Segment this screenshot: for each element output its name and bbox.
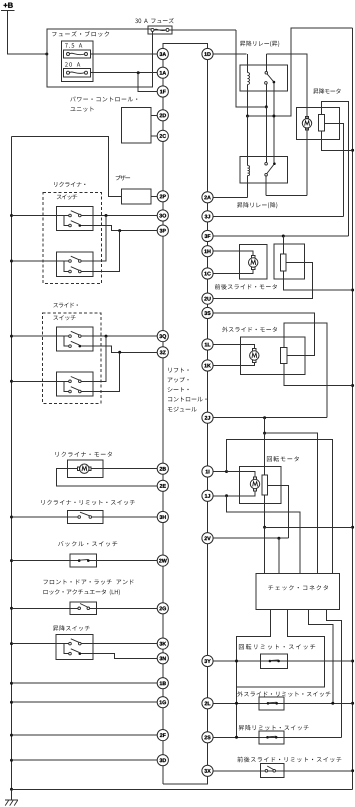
recliner switch S1 box: [57, 207, 94, 231]
wire M1 to 2B: [103, 468, 157, 470]
switch S4 contact b: [69, 387, 81, 393]
junction 2V: [277, 537, 280, 540]
wire check pin1 to 3Y net: [237, 610, 271, 661]
connector pin 2U: [202, 293, 213, 304]
wire S2 pole link: [64, 261, 69, 272]
connector pin 2J: [202, 412, 213, 423]
junction R4 bottom node: [263, 526, 266, 529]
wire 3J row: [213, 215, 344, 217]
junction +B feed at fuse block edge: [45, 53, 48, 56]
wire S4 pole link: [64, 381, 69, 391]
wire R2 bottom to right bus: [283, 271, 352, 290]
wire coil K2 bottom: [247, 176, 249, 198]
label power control unit line2: [70, 107, 93, 112]
wire ground bus top feed to buzzer: [12, 137, 122, 197]
wire M2 to K2 common: [266, 195, 307, 197]
switch buckle contacts closed: [78, 559, 90, 562]
connector pin 2F: [157, 730, 168, 741]
wire S1b to 3P: [81, 226, 157, 231]
motor M3 front-rear slide: [249, 256, 258, 270]
connector pin 2B: [157, 463, 168, 474]
wire S3a to 3Q: [81, 335, 157, 337]
fuse F1 symbol: [67, 53, 88, 56]
wire R1 bottom to right bus: [321, 131, 352, 150]
coil K2: [248, 166, 250, 176]
wire coil K2 top: [247, 116, 249, 166]
wire S3b to 3Z: [81, 346, 157, 352]
label module line 5: [168, 407, 197, 412]
label outer slide limit switch: [237, 691, 330, 697]
switch S2 contact b: [69, 267, 81, 273]
connector pin 3A: [157, 48, 168, 59]
wire R4 tap down: [268, 486, 289, 539]
wire bus to 2F: [12, 734, 158, 736]
wire bus to S5 pole: [12, 643, 69, 645]
connector pin 3D: [157, 755, 168, 766]
wire bus to 1B: [12, 682, 158, 684]
wire check pin3 to 2L row: [308, 610, 333, 704]
wire 3O net to S2a: [81, 216, 106, 262]
wire 30A fuse to relay contacts: [236, 30, 266, 107]
wire K1 NO to K2 contact b: [273, 83, 275, 162]
wire bus to S4 pole: [12, 380, 69, 382]
label recliner switch line1: [54, 182, 85, 187]
wire 1D to relay coil: [213, 53, 247, 55]
junction 1A/1F branch: [137, 71, 140, 74]
connector pin 1C: [202, 268, 213, 279]
connector pin 3S: [202, 307, 213, 318]
wire +B feed to fuse block: [8, 11, 47, 55]
switch fr slide limit open: [265, 766, 275, 772]
connector pin 2W: [157, 555, 168, 566]
wire S3 pole link: [64, 336, 69, 346]
wire R4 bottom to right bus: [265, 526, 353, 528]
wire bus to recliner limit switch: [12, 516, 78, 518]
wire relay feed to lift motor: [266, 54, 307, 118]
wire to R4 top: [264, 433, 266, 475]
wire M5 bottom: [227, 491, 256, 496]
wire coil K1 top: [247, 54, 249, 73]
wire 3Z net to S4b: [81, 352, 120, 391]
label 30 A fuse: [135, 18, 174, 23]
resistor R2 front-rear: [281, 254, 286, 271]
wire right-side common bus: [352, 28, 354, 789]
switch door latch contact: [78, 604, 90, 610]
resistor R4 rotation: [262, 475, 268, 495]
wire limit switch common: [236, 661, 238, 737]
connector pin 3F: [202, 230, 213, 241]
fuse block フューズ・ブロック: [47, 29, 153, 87]
connector pin 3O: [157, 210, 168, 221]
connector pin 2C: [157, 130, 168, 141]
connector pin 2A: [202, 192, 213, 203]
recliner motor box: [68, 460, 103, 478]
wire to K2 contact a: [265, 107, 267, 162]
wire bus to 3D: [12, 759, 158, 761]
wire 1J branch to check connector: [227, 496, 300, 574]
wire M1 to 2E loop: [57, 469, 158, 486]
rotation motor box: [239, 467, 280, 504]
connector pin 1F: [157, 86, 168, 97]
label recliner switch line2: [57, 194, 77, 199]
buckle switch box: [70, 554, 96, 567]
junction 2J at rotation net: [263, 416, 266, 419]
label recliner limit switch: [41, 500, 134, 505]
slide switch S4 box: [57, 372, 94, 396]
label front-rear slide motor: [215, 284, 277, 290]
motor M5 rotation: [250, 477, 259, 491]
resistor R1 lift: [318, 114, 324, 131]
label outer slide motor: [222, 327, 277, 333]
wire bus to door latch switch: [12, 607, 78, 609]
fr slide motor box: [240, 245, 268, 279]
recliner limit switch box: [68, 510, 103, 523]
outer slide limit switch box: [259, 697, 284, 710]
wire M2 bottom: [306, 128, 308, 195]
switch S1 contact a: [69, 211, 81, 217]
wire check pin2 loop: [237, 610, 325, 688]
switch S1 contact b: [69, 221, 81, 227]
motor M2 lift: [302, 117, 311, 131]
connector pin 1K: [202, 360, 213, 371]
label module line 2: [168, 377, 189, 382]
wire PCU to 2D: [151, 114, 157, 116]
wire rotation branch to check connector: [265, 433, 318, 573]
wire 3A top stub: [162, 44, 164, 49]
connector pin 2P: [157, 191, 168, 202]
junction 3P net: [118, 229, 121, 232]
wire door latch switch to 2G: [90, 607, 158, 609]
junction 30A feed node: [265, 105, 268, 108]
junction 2S net: [235, 736, 238, 739]
switch lift limit closed: [266, 736, 277, 739]
connector pin 2S: [202, 732, 213, 743]
buzzer box: [122, 189, 152, 204]
connector pin 1G: [157, 697, 168, 708]
module box リフト・アップ・シート・コントロール・モジュール outline: [163, 44, 208, 784]
wire S1 pole link: [64, 216, 69, 226]
net +B battery terminal: [1, 3, 15, 11]
label rotation limit switch: [239, 644, 315, 650]
switch S3 contact b: [69, 341, 81, 347]
connector pin 3K: [157, 638, 168, 649]
label door latch line2: [44, 589, 120, 595]
switch S2 contact a: [69, 256, 81, 262]
wire R4 node to check connector: [264, 527, 266, 573]
label door latch line1: [44, 580, 134, 585]
label slide switch line1: [53, 303, 78, 308]
wire 3F row: [213, 235, 348, 237]
relay K2 box: [240, 156, 288, 183]
label module line 3: [168, 387, 189, 392]
wire 1I row: [213, 471, 226, 473]
ground symbol: [5, 789, 18, 805]
wire F2 output to 1A: [91, 72, 158, 74]
wire S5a to 3K: [81, 643, 157, 645]
label fr slide limit switch: [237, 757, 341, 763]
wire 1L to M4 top: [213, 345, 254, 349]
wire 2V to check connector: [278, 538, 280, 573]
wire buzzer to 2P: [151, 195, 157, 197]
wire S5 pole link: [64, 644, 69, 654]
junction 3Z net: [118, 351, 121, 354]
wire M1 right inside: [91, 468, 103, 470]
wire K2 common down: [265, 176, 267, 196]
label module line 4: [168, 397, 207, 402]
wire 3Q net to S4a: [81, 336, 106, 381]
switch S4 contact a: [69, 377, 81, 383]
wire R4 bottom: [264, 495, 266, 527]
fuse F2 symbol: [67, 71, 88, 74]
wire 1I loop to check connector: [227, 439, 333, 573]
junction 2L net: [235, 702, 238, 705]
junction 3O net: [105, 214, 108, 217]
wire 3Y row: [213, 660, 353, 662]
wire 2J row: [213, 417, 327, 419]
connector pin 1I: [202, 466, 213, 477]
fuse sub-block: [62, 41, 94, 82]
label rotation motor: [267, 456, 299, 462]
junction 3Y net: [235, 660, 238, 663]
wire bus to buckle switch: [12, 560, 78, 562]
connector pin 3N: [157, 653, 168, 664]
wire recliner limit to 3H: [92, 516, 158, 518]
label lift limit switch: [239, 725, 309, 731]
connector pin 3H: [157, 511, 168, 522]
wire 3S to R3 tap: [213, 313, 314, 355]
label recliner motor: [56, 452, 113, 457]
wire R1 top to 3F net: [321, 102, 348, 237]
check connector box: [256, 573, 340, 609]
wire 3P net to S2b: [81, 231, 120, 272]
switch rotation limit closed: [269, 660, 280, 663]
fr slide resistor box: [274, 244, 304, 279]
wire 2S row: [213, 736, 341, 738]
connector pin 3X: [202, 765, 213, 776]
recliner switch S2 box: [57, 252, 94, 276]
junctions on ground bus: [10, 214, 13, 791]
fr slide limit switch box: [260, 764, 284, 778]
wire 3X row: [213, 770, 353, 772]
connector pin 3Y: [202, 655, 213, 666]
wire R3 top to 2J net: [284, 323, 327, 418]
label 20 A: [65, 62, 80, 66]
wire R3 bottom to right bus: [284, 364, 353, 386]
rotation limit switch box: [260, 654, 287, 668]
connector pin 1J: [202, 490, 213, 501]
door latch actuator switch box: [70, 602, 96, 614]
connector pin 1B: [157, 678, 168, 689]
label buzzer: [116, 175, 130, 181]
connector pin 2D: [157, 110, 168, 121]
connector pin 1H: [202, 246, 213, 257]
label lift relay up: [240, 41, 279, 47]
wire coil K1 bottom: [247, 85, 249, 117]
fuse F1 7.5A body: [63, 50, 90, 58]
wire coil K2 to 2A: [213, 196, 247, 198]
connector pin 3Z: [157, 347, 168, 358]
switch S5 contact b: [69, 649, 81, 655]
wire bottom ground line: [12, 788, 353, 790]
wire bus to S2 pole: [12, 260, 69, 262]
junction 3F at R2 top: [282, 235, 285, 238]
wire PCU to 2C: [151, 135, 157, 137]
junction 2L check branch: [331, 702, 334, 705]
label 7.5 A: [65, 43, 82, 47]
label slide switch line2: [53, 315, 75, 320]
label lift relay down: [237, 202, 277, 208]
connector pin 2E: [157, 480, 168, 491]
lift limit switch box: [259, 731, 284, 744]
motor M4 outer slide: [250, 349, 259, 363]
slide switch S3 box: [57, 327, 94, 351]
wire check pin4 to 2S row: [327, 610, 342, 738]
label check connector: [268, 585, 328, 590]
slide switch dashed enclosure: [43, 313, 101, 403]
switch recliner limit contact: [78, 512, 92, 518]
connector pin 2L: [202, 698, 213, 709]
switch K2 contacts: [265, 162, 276, 176]
wire 1J row: [213, 495, 226, 497]
connector pin 3P: [157, 225, 168, 236]
connector pin 3J: [202, 211, 213, 222]
fuse F2 20A body: [63, 69, 90, 77]
switch K1 contacts: [265, 72, 276, 85]
connector pin 1D: [202, 48, 213, 59]
relay K1 box: [240, 65, 287, 91]
wire 1H to M3 top: [213, 251, 253, 256]
lift motor box: [296, 107, 339, 139]
wire rotation feed: [264, 418, 266, 433]
label buckle switch: [58, 541, 117, 546]
connector pin 3Q: [157, 331, 168, 342]
junction 3Q net: [105, 335, 108, 338]
connector pin 2G: [157, 603, 168, 614]
wire buckle switch to 2W: [90, 560, 158, 562]
label lift motor: [313, 88, 340, 94]
wire bus to S3 pole: [12, 335, 69, 337]
power control unit box: [122, 108, 152, 144]
wire S1a to 3O: [81, 215, 157, 217]
wire K1 common drop: [265, 54, 267, 72]
wire 1I to M5 top: [227, 472, 256, 478]
wire 2L row: [213, 702, 353, 704]
wire R1 tap to 3J net: [324, 123, 343, 216]
switch S3 contact a: [69, 331, 81, 337]
fuse F3 30A body: [148, 26, 172, 34]
wire F1 output to 3A: [91, 53, 158, 55]
connector pin 1L: [202, 339, 213, 350]
resistor R3 outer slide: [281, 348, 288, 364]
wire R2 top: [282, 236, 284, 254]
label lift switch: [53, 625, 90, 631]
outer slide motor box: [240, 337, 305, 375]
wire branch to 1F: [138, 73, 157, 92]
junction rotation check branch: [263, 432, 266, 435]
fuse F3 symbol: [151, 28, 169, 31]
connector pin 2V: [202, 533, 213, 544]
wire 2V row: [213, 537, 289, 539]
coil K1: [248, 73, 250, 85]
wire bus to 1G: [12, 701, 158, 703]
lift switch S5 box: [56, 635, 93, 660]
switch outer slide limit closed: [267, 702, 278, 705]
motor M1 recliner: [78, 464, 92, 473]
wire S5b to 3N: [81, 654, 157, 659]
wire ground bus: [11, 137, 13, 790]
wire M4 bottom to 1K: [213, 362, 254, 365]
recliner switch dashed enclosure: [43, 193, 101, 284]
wire bus to S1 pole1: [12, 215, 69, 217]
junctions on right bus: [351, 149, 354, 773]
wire M3 bottom to 1C: [213, 269, 253, 273]
label power control unit line1: [70, 97, 137, 102]
wire 30A fuse feed: [153, 29, 237, 31]
junction 1I: [225, 470, 228, 473]
connector pin 1A: [157, 67, 168, 78]
wire R2 tap to 2U: [213, 263, 312, 299]
junction K1 NO at coil common: [272, 115, 275, 118]
wire coil common loop to right bus: [248, 28, 353, 116]
switch S5 contact a: [69, 639, 81, 645]
label module line 1: [168, 368, 188, 373]
label fuse block: [52, 31, 109, 36]
junction 1J: [225, 494, 228, 497]
junction coil common: [246, 115, 249, 118]
wire K1 NC contact down: [265, 84, 267, 107]
